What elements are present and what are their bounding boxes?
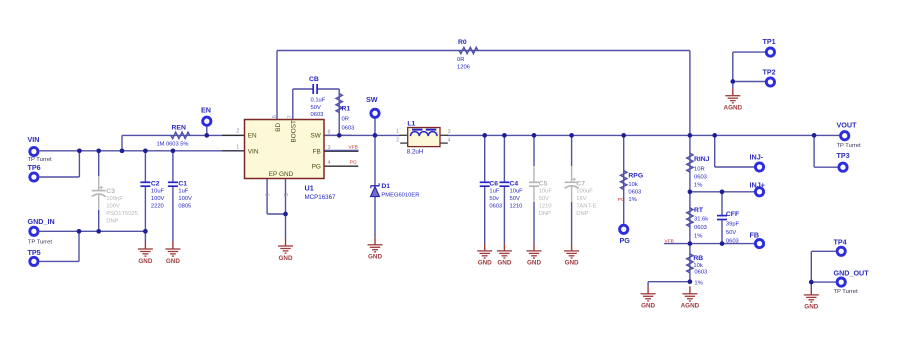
svg-text:C4: C4 xyxy=(510,180,519,187)
svg-text:8.2uH: 8.2uH xyxy=(407,149,424,156)
svg-text:1M 0603 5%: 1M 0603 5% xyxy=(157,142,189,148)
svg-text:50V: 50V xyxy=(311,105,321,111)
svg-text:0603: 0603 xyxy=(311,112,324,118)
svg-text:TP Turret: TP Turret xyxy=(28,157,52,163)
svg-text:TP5: TP5 xyxy=(28,248,41,257)
svg-text:D1: D1 xyxy=(381,183,390,190)
svg-text:GND: GND xyxy=(138,258,152,265)
svg-text:3: 3 xyxy=(448,129,451,135)
svg-text:GND: GND xyxy=(279,255,293,262)
svg-text:C1: C1 xyxy=(178,180,187,187)
svg-text:1%: 1% xyxy=(694,233,702,239)
svg-text:GND: GND xyxy=(804,304,818,311)
svg-text:TP Turret: TP Turret xyxy=(28,240,52,246)
svg-text:AGND: AGND xyxy=(724,105,743,112)
svg-text:16V: 16V xyxy=(576,196,586,202)
svg-text:TP6: TP6 xyxy=(28,163,41,172)
svg-text:GND: GND xyxy=(478,260,492,267)
svg-text:DNP: DNP xyxy=(539,211,551,217)
svg-text:GND: GND xyxy=(565,260,579,267)
svg-text:1%: 1% xyxy=(628,197,636,203)
svg-text:100uF: 100uF xyxy=(576,189,593,195)
svg-text:0.1uF: 0.1uF xyxy=(311,98,326,104)
svg-text:100V: 100V xyxy=(151,196,165,202)
svg-text:TP Turret: TP Turret xyxy=(834,289,858,295)
svg-text:2: 2 xyxy=(236,129,239,135)
svg-text:50v: 50v xyxy=(489,196,498,202)
svg-text:VFB: VFB xyxy=(349,145,358,151)
svg-text:INJ-: INJ- xyxy=(750,153,764,162)
svg-text:PG: PG xyxy=(350,160,357,166)
svg-text:SW: SW xyxy=(366,95,378,104)
svg-text:100nF: 100nF xyxy=(106,196,123,202)
svg-text:REN: REN xyxy=(172,125,186,132)
svg-text:0R: 0R xyxy=(342,117,349,123)
svg-text:TP Turret: TP Turret xyxy=(837,143,861,149)
svg-text:FB: FB xyxy=(750,231,760,240)
svg-text:1uF: 1uF xyxy=(489,189,499,195)
svg-text:SW: SW xyxy=(311,133,322,140)
svg-text:GND_IN: GND_IN xyxy=(28,217,55,226)
svg-text:50V: 50V xyxy=(726,230,736,236)
svg-text:10uF: 10uF xyxy=(510,189,524,195)
svg-text:EN: EN xyxy=(248,133,257,140)
svg-text:10R: 10R xyxy=(694,166,705,172)
svg-text:0603: 0603 xyxy=(489,204,502,210)
svg-text:31.6k: 31.6k xyxy=(694,216,708,222)
svg-text:U1: U1 xyxy=(305,184,314,193)
svg-text:10uF: 10uF xyxy=(539,189,553,195)
svg-text:AGND: AGND xyxy=(681,303,700,310)
svg-text:1%: 1% xyxy=(694,182,702,188)
svg-text:7: 7 xyxy=(288,115,294,118)
svg-text:TP3: TP3 xyxy=(837,151,850,160)
svg-text:2: 2 xyxy=(396,137,399,143)
svg-text:R0: R0 xyxy=(458,39,467,46)
svg-text:PG: PG xyxy=(618,197,625,203)
svg-text:CB: CB xyxy=(309,76,319,83)
svg-text:5: 5 xyxy=(284,193,290,196)
svg-text:FB: FB xyxy=(313,148,321,155)
svg-text:10uF: 10uF xyxy=(151,189,165,195)
svg-text:RINJ: RINJ xyxy=(694,156,710,163)
svg-text:1uF: 1uF xyxy=(178,189,188,195)
svg-text:RT: RT xyxy=(694,207,704,214)
svg-text:GND: GND xyxy=(368,254,382,261)
svg-text:TANT-E: TANT-E xyxy=(576,204,596,210)
svg-text:DNP: DNP xyxy=(576,211,588,217)
svg-text:C2: C2 xyxy=(151,180,160,187)
svg-text:VOUT: VOUT xyxy=(837,121,858,130)
svg-text:3: 3 xyxy=(328,145,331,151)
svg-text:DNP: DNP xyxy=(106,219,118,225)
svg-text:R1: R1 xyxy=(342,106,351,113)
svg-text:PSD1T5025: PSD1T5025 xyxy=(106,211,138,217)
svg-text:RB: RB xyxy=(693,255,703,262)
svg-text:MCP16367: MCP16367 xyxy=(305,194,337,201)
svg-text:C3: C3 xyxy=(106,188,115,195)
svg-text:GND: GND xyxy=(166,258,180,265)
svg-text:C6: C6 xyxy=(489,180,498,187)
svg-text:1%: 1% xyxy=(694,280,702,286)
svg-text:0603: 0603 xyxy=(694,174,707,180)
svg-text:2220: 2220 xyxy=(151,204,164,210)
svg-text:0805: 0805 xyxy=(178,204,191,210)
svg-text:C7: C7 xyxy=(576,180,585,187)
svg-text:C5: C5 xyxy=(539,180,548,187)
svg-text:4: 4 xyxy=(328,160,331,166)
svg-text:RPG: RPG xyxy=(628,173,643,180)
svg-text:GND: GND xyxy=(497,260,511,267)
svg-text:EP GND: EP GND xyxy=(269,171,294,178)
svg-text:TP1: TP1 xyxy=(763,37,776,46)
svg-text:50V: 50V xyxy=(539,196,549,202)
svg-text:1: 1 xyxy=(396,129,399,135)
svg-text:6: 6 xyxy=(272,115,278,118)
svg-text:VIN: VIN xyxy=(28,135,40,144)
svg-text:9: 9 xyxy=(266,193,272,196)
svg-text:39pF: 39pF xyxy=(726,221,740,227)
svg-text:100V: 100V xyxy=(178,196,192,202)
svg-text:L1: L1 xyxy=(407,121,415,128)
svg-text:BOOST: BOOST xyxy=(291,120,298,142)
svg-text:0603: 0603 xyxy=(694,270,707,276)
svg-text:8: 8 xyxy=(328,130,331,136)
svg-text:EN: EN xyxy=(201,106,211,115)
svg-text:PMEG6010ER: PMEG6010ER xyxy=(381,193,419,199)
svg-text:0603: 0603 xyxy=(628,190,641,196)
svg-text:0603: 0603 xyxy=(694,225,707,231)
svg-text:PG: PG xyxy=(312,163,321,170)
svg-text:1210: 1210 xyxy=(539,204,552,210)
svg-text:INJ+: INJ+ xyxy=(750,181,765,190)
svg-text:VIN: VIN xyxy=(248,148,259,155)
svg-text:VFB: VFB xyxy=(665,238,674,244)
svg-text:0603: 0603 xyxy=(726,238,739,244)
svg-text:CFF: CFF xyxy=(726,211,739,218)
svg-text:GND: GND xyxy=(527,260,541,267)
svg-text:10k: 10k xyxy=(693,263,702,269)
svg-text:0R: 0R xyxy=(457,57,464,63)
svg-text:GND: GND xyxy=(641,303,655,310)
svg-text:4: 4 xyxy=(448,137,451,143)
svg-text:BD: BD xyxy=(275,123,282,132)
svg-text:1210: 1210 xyxy=(510,204,523,210)
svg-text:1: 1 xyxy=(236,144,239,150)
svg-text:GND_OUT: GND_OUT xyxy=(834,269,870,278)
svg-text:PG: PG xyxy=(620,236,631,245)
svg-text:100V: 100V xyxy=(106,204,120,210)
svg-text:1206: 1206 xyxy=(457,64,470,70)
svg-text:0603: 0603 xyxy=(342,126,355,132)
svg-text:TP2: TP2 xyxy=(763,67,776,76)
svg-text:50V: 50V xyxy=(510,196,520,202)
svg-text:10k: 10k xyxy=(628,182,637,188)
svg-text:TP4: TP4 xyxy=(834,237,847,246)
